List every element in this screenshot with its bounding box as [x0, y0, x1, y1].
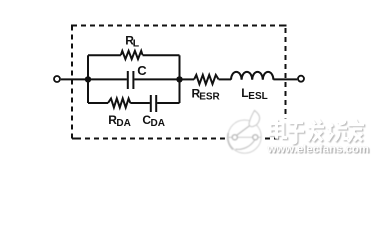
svg-text:ESR: ESR [199, 92, 220, 103]
svg-text:www.elecfans.com: www.elecfans.com [267, 143, 370, 155]
svg-text:C: C [137, 63, 147, 78]
svg-text:L: L [133, 38, 140, 50]
svg-text:ESL: ESL [248, 91, 267, 102]
svg-text:DA: DA [116, 118, 130, 129]
svg-text:DA: DA [151, 118, 165, 129]
